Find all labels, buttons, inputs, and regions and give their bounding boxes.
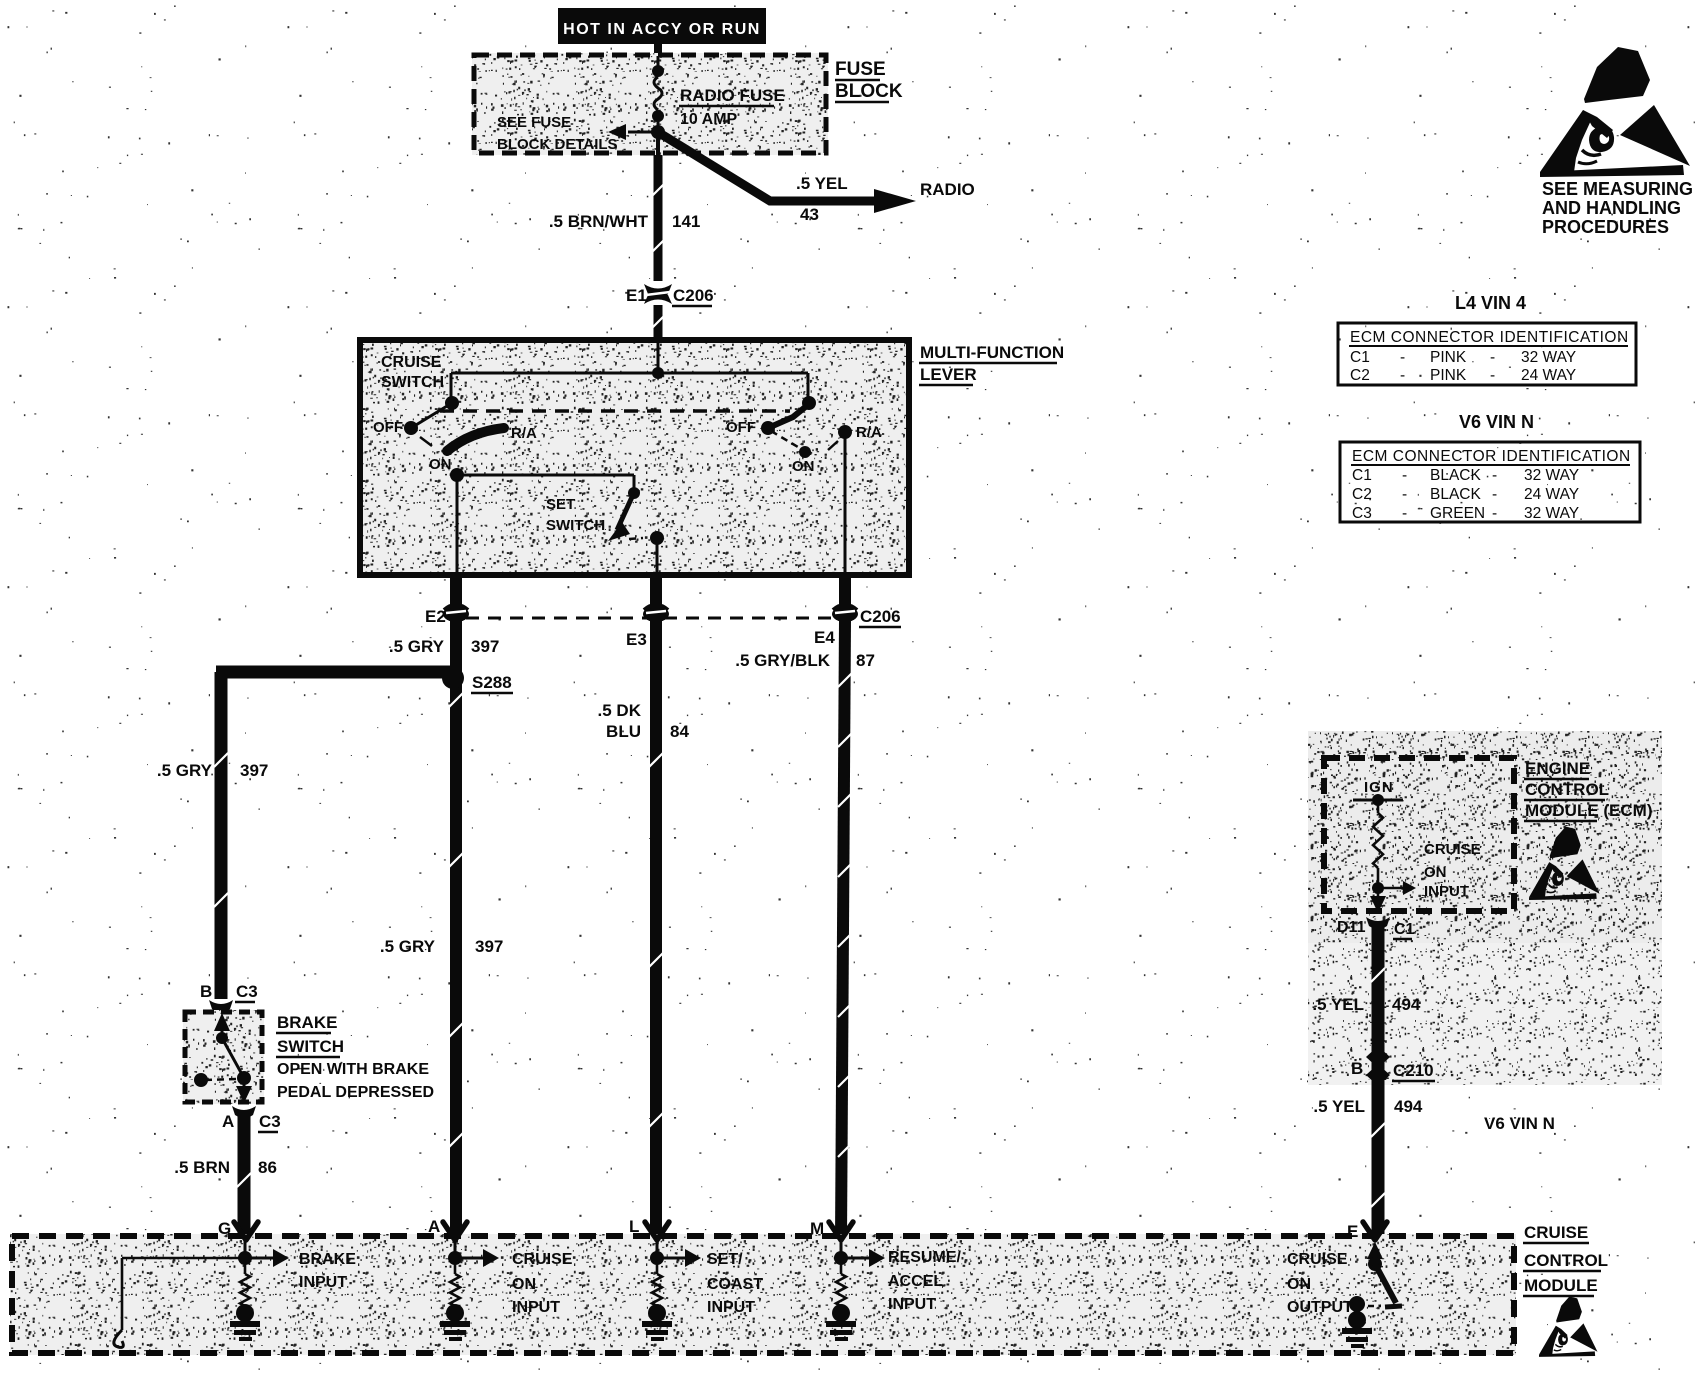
svg-text:AND HANDLING: AND HANDLING xyxy=(1542,198,1681,218)
svg-text:-: - xyxy=(1400,367,1405,384)
svg-text:494: 494 xyxy=(1394,1097,1423,1116)
svg-text:.5 YEL: .5 YEL xyxy=(796,174,848,193)
svg-text:INPUT: INPUT xyxy=(512,1299,560,1316)
svg-text:RADIO FUSE: RADIO FUSE xyxy=(680,86,785,105)
svg-text:C2: C2 xyxy=(1352,486,1372,503)
svg-text:S288: S288 xyxy=(472,673,512,692)
svg-text:MULTI-FUNCTION: MULTI-FUNCTION xyxy=(920,343,1064,362)
wire .5 GRY 397 left xyxy=(215,672,228,999)
cruise switch right dashed arm xyxy=(771,431,803,450)
wire .5 YEL 43 to radio xyxy=(661,134,876,201)
svg-text:PROCEDURES: PROCEDURES xyxy=(1542,217,1669,237)
svg-text:.5 YEL: .5 YEL xyxy=(1312,995,1364,1014)
svg-text:CRUISE: CRUISE xyxy=(1524,1223,1588,1242)
dashed linkage line xyxy=(440,409,790,413)
node ON left xyxy=(450,468,464,482)
svg-text:C206: C206 xyxy=(673,286,714,305)
brake switch box xyxy=(183,1010,264,1104)
svg-text:C3: C3 xyxy=(1352,505,1372,522)
pin A circuit xyxy=(454,1236,457,1252)
svg-text:.5 YEL: .5 YEL xyxy=(1313,1097,1365,1116)
connector D11 C1 xyxy=(1366,917,1390,929)
svg-text:R/A: R/A xyxy=(511,425,537,442)
svg-text:-: - xyxy=(1402,467,1407,484)
wire E4 upper xyxy=(844,432,847,577)
wire E3 lower xyxy=(650,621,662,1238)
connector A C3 xyxy=(232,1106,256,1118)
svg-text:ECM CONNECTOR IDENTIFICATION: ECM CONNECTOR IDENTIFICATION xyxy=(1350,329,1629,346)
svg-text:397: 397 xyxy=(475,937,503,956)
svg-text:.5 BRN/WHT: .5 BRN/WHT xyxy=(549,212,649,231)
wire E2 lower xyxy=(450,621,462,1238)
svg-text:IGN: IGN xyxy=(1364,779,1394,796)
ECM connector table L4 xyxy=(1338,323,1636,385)
brake switch contacts xyxy=(214,1013,230,1031)
svg-text:CRUISE: CRUISE xyxy=(1424,841,1481,858)
svg-text:BRAKE: BRAKE xyxy=(299,1251,356,1268)
svg-text:C1: C1 xyxy=(1394,921,1415,938)
svg-text:494: 494 xyxy=(1392,995,1421,1014)
svg-text:397: 397 xyxy=(240,761,268,780)
svg-text:FUSE: FUSE xyxy=(835,59,886,80)
svg-text:.5 GRY: .5 GRY xyxy=(157,761,213,780)
svg-text:43: 43 xyxy=(800,205,819,224)
wire .5 YEL 494 upper xyxy=(1372,924,1385,1238)
multi-function lever box xyxy=(358,338,911,577)
ECM speckle wash xyxy=(1308,731,1662,943)
cruise switch left pole xyxy=(445,396,459,410)
svg-text:24 WAY: 24 WAY xyxy=(1521,367,1576,384)
svg-text:BLOCK DETAILS: BLOCK DETAILS xyxy=(497,136,618,153)
svg-text:PINK: PINK xyxy=(1430,367,1467,384)
wire E4 lower xyxy=(841,621,845,1238)
svg-text:A: A xyxy=(428,1217,440,1236)
fuse block box xyxy=(472,53,828,155)
svg-text:LEVER: LEVER xyxy=(920,365,977,384)
pin M circuit xyxy=(840,1236,843,1252)
wire hot feed from banner xyxy=(654,40,662,56)
esd symbol top right xyxy=(1540,47,1690,177)
terminal L xyxy=(645,1222,669,1240)
connector B C210 xyxy=(1366,1046,1390,1068)
svg-text:C1: C1 xyxy=(1352,467,1372,484)
terminal G xyxy=(234,1222,258,1240)
fuse RADIO FUSE element xyxy=(657,56,660,67)
cruise switch right pole xyxy=(802,396,816,410)
svg-text:ECM CONNECTOR IDENTIFICATION: ECM CONNECTOR IDENTIFICATION xyxy=(1352,448,1631,465)
svg-text:RESUME/: RESUME/ xyxy=(888,1249,961,1266)
svg-text:BRAKE: BRAKE xyxy=(277,1013,337,1032)
svg-text:C1: C1 xyxy=(1350,349,1370,366)
connector B C3 xyxy=(209,1000,233,1012)
svg-text:PEDAL DEPRESSED: PEDAL DEPRESSED xyxy=(277,1084,434,1101)
set switch xyxy=(628,487,640,499)
pin L circuit xyxy=(656,1236,659,1252)
svg-text:-: - xyxy=(1402,486,1407,503)
svg-text:.5 GRY/BLK: .5 GRY/BLK xyxy=(735,651,830,670)
wire lever feed bus xyxy=(657,341,660,373)
svg-text:141: 141 xyxy=(672,212,700,231)
svg-text:SET: SET xyxy=(546,496,575,513)
svg-text:E4: E4 xyxy=(814,628,835,647)
svg-text:COAST: COAST xyxy=(707,1276,763,1293)
pin G circuit xyxy=(244,1236,247,1252)
pin E circuit xyxy=(1367,1242,1383,1259)
svg-text:C2: C2 xyxy=(1350,367,1370,384)
svg-text:ON: ON xyxy=(792,458,815,475)
svg-text:.5 GRY: .5 GRY xyxy=(389,637,445,656)
wire ON to set switch xyxy=(457,474,634,477)
svg-text:R/A: R/A xyxy=(856,424,882,441)
engine control module box xyxy=(1322,756,1516,913)
svg-text:INPUT: INPUT xyxy=(1424,883,1469,900)
svg-text:397: 397 xyxy=(471,637,499,656)
svg-text:10 AMP: 10 AMP xyxy=(680,111,738,128)
svg-text:E: E xyxy=(1347,1222,1358,1241)
terminal A xyxy=(443,1222,467,1240)
svg-text:C210: C210 xyxy=(1393,1061,1434,1080)
svg-text:BLACK: BLACK xyxy=(1430,486,1481,503)
svg-text:ON: ON xyxy=(512,1276,536,1293)
svg-text:-: - xyxy=(1400,349,1405,366)
terminal E xyxy=(1363,1222,1387,1240)
svg-text:HOT IN ACCY OR RUN: HOT IN ACCY OR RUN xyxy=(563,21,761,38)
svg-text:E1: E1 xyxy=(626,286,647,305)
svg-text:OUTPUT: OUTPUT xyxy=(1287,1299,1353,1316)
svg-text:ON: ON xyxy=(1424,864,1447,881)
svg-text:MODULE (ECM): MODULE (ECM) xyxy=(1525,801,1652,820)
svg-text:OFF: OFF xyxy=(726,419,756,436)
svg-text:.5 DK: .5 DK xyxy=(598,701,642,720)
svg-text:A: A xyxy=(222,1112,234,1131)
svg-text:INPUT: INPUT xyxy=(888,1296,936,1313)
connector E3 xyxy=(643,606,669,622)
svg-text:PINK: PINK xyxy=(1430,349,1467,366)
svg-text:CONTROL: CONTROL xyxy=(1524,1251,1608,1270)
svg-text:SWITCH: SWITCH xyxy=(381,374,444,391)
svg-text:-: - xyxy=(1490,349,1495,366)
svg-text:C3: C3 xyxy=(236,982,258,1001)
svg-text:-: - xyxy=(1490,367,1495,384)
splice S288 xyxy=(442,667,464,689)
svg-text:86: 86 xyxy=(258,1158,277,1177)
terminal M xyxy=(829,1222,853,1240)
dashed line C206 row xyxy=(466,617,848,620)
svg-text:M: M xyxy=(810,1219,824,1238)
svg-text:INPUT: INPUT xyxy=(707,1299,755,1316)
svg-text:32 WAY: 32 WAY xyxy=(1524,505,1579,522)
svg-text:BLU: BLU xyxy=(606,722,641,741)
svg-text:V6 VIN N: V6 VIN N xyxy=(1459,412,1534,432)
svg-text:RADIO: RADIO xyxy=(920,180,975,199)
svg-text:.5 BRN: .5 BRN xyxy=(174,1158,230,1177)
svg-text:B: B xyxy=(1351,1059,1363,1078)
svg-text:BLACK: BLACK xyxy=(1430,467,1481,484)
svg-text:SET/: SET/ xyxy=(707,1251,743,1268)
svg-text:.5 GRY: .5 GRY xyxy=(380,937,436,956)
cruise control module box xyxy=(10,1234,1516,1355)
svg-text:-: - xyxy=(1492,467,1497,484)
svg-text:ACCEL: ACCEL xyxy=(888,1273,943,1290)
svg-text:SWITCH: SWITCH xyxy=(546,517,605,534)
ECM internal circuit xyxy=(1353,799,1403,802)
svg-text:OFF: OFF xyxy=(373,419,403,436)
svg-text:C3: C3 xyxy=(259,1112,281,1131)
wire E3 upper xyxy=(656,538,659,577)
cruise switch left lever arm xyxy=(420,437,432,446)
svg-text:24 WAY: 24 WAY xyxy=(1524,486,1579,503)
svg-text:GREEN: GREEN xyxy=(1430,505,1485,522)
svg-text:V6 VIN N: V6 VIN N xyxy=(1484,1114,1555,1133)
svg-text:B: B xyxy=(200,982,212,1001)
node R/A right xyxy=(838,425,852,439)
esd symbol in ECM xyxy=(1529,827,1600,900)
svg-text:MODULE: MODULE xyxy=(1524,1276,1598,1295)
svg-text:-: - xyxy=(1402,505,1407,522)
svg-text:OPEN WITH BRAKE: OPEN WITH BRAKE xyxy=(277,1061,429,1078)
svg-text:ON: ON xyxy=(429,456,452,473)
svg-text:CRUISE: CRUISE xyxy=(512,1251,573,1268)
wire S288 branch horizontal xyxy=(216,666,453,679)
svg-text:SEE FUSE: SEE FUSE xyxy=(497,114,571,131)
svg-text:L4 VIN 4: L4 VIN 4 xyxy=(1455,293,1526,313)
svg-text:BLOCK: BLOCK xyxy=(835,81,903,102)
svg-text:G: G xyxy=(218,1219,231,1238)
svg-text:32 WAY: 32 WAY xyxy=(1521,349,1576,366)
wire .5 BRN/WHT 141 xyxy=(654,155,663,281)
svg-text:SEE MEASURING: SEE MEASURING xyxy=(1542,179,1693,199)
svg-text:CRUISE: CRUISE xyxy=(381,354,442,371)
connector E1 C206 xyxy=(644,284,672,298)
svg-text:CONTROL: CONTROL xyxy=(1525,780,1609,799)
svg-text:INPUT: INPUT xyxy=(299,1274,347,1291)
label HOT IN ACCY OR RUN banner xyxy=(558,8,766,44)
svg-text:E3: E3 xyxy=(626,630,647,649)
svg-text:SWITCH: SWITCH xyxy=(277,1037,344,1056)
svg-text:ON: ON xyxy=(1287,1276,1311,1293)
connector E4 xyxy=(832,606,858,622)
svg-text:-: - xyxy=(1492,505,1497,522)
arrow to fuse block details xyxy=(628,131,659,134)
svg-text:C206: C206 xyxy=(860,607,901,626)
wire .5 BRN 86 xyxy=(238,1112,251,1238)
esd symbol bottom right xyxy=(1539,1296,1598,1356)
svg-text:32 WAY: 32 WAY xyxy=(1524,467,1579,484)
svg-text:E2: E2 xyxy=(425,607,446,626)
svg-text:-: - xyxy=(1492,486,1497,503)
svg-text:L: L xyxy=(629,1217,639,1236)
svg-text:84: 84 xyxy=(670,722,689,741)
svg-text:87: 87 xyxy=(856,651,875,670)
wire E2 upper xyxy=(456,475,459,577)
svg-text:CRUISE: CRUISE xyxy=(1287,1251,1348,1268)
svg-text:D11: D11 xyxy=(1337,919,1366,936)
svg-text:ENGINE: ENGINE xyxy=(1525,759,1590,778)
ECM connector table V6 xyxy=(1340,442,1640,522)
connector E2 xyxy=(443,606,469,622)
